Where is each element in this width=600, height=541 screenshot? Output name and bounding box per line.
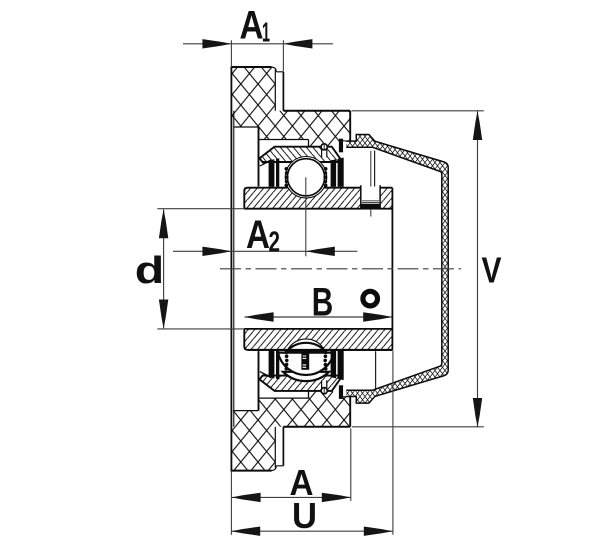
housing body right face lower — [349, 396, 351, 427]
svg-text:2: 2 — [269, 227, 281, 259]
housing flange top tab (cross-hatched section) — [231, 67, 275, 111]
dimension A2 extension (bearing centre plane) — [305, 177, 307, 256]
seal upper-right (black) — [338, 158, 344, 187]
lower ball silhouette between raceways — [278, 353, 334, 375]
dimension A arrow right — [322, 493, 351, 502]
ball upper — [287, 159, 324, 196]
inner ring sleeve upper band (hatched) — [244, 188, 392, 209]
dimension A1 line — [183, 43, 333, 45]
grease hole circle upper — [321, 144, 327, 150]
housing flange bottom tab (cross-hatched section) — [231, 427, 275, 471]
sleeve right end face — [391, 188, 393, 350]
housing recess bottom boundary — [234, 410, 259, 412]
dimension A extension right — [350, 428, 352, 501]
flange tab hatch boundary line — [274, 70, 276, 111]
far set screw hole edge line upper — [374, 151, 376, 204]
bearing outer ring upper (hatched section) — [260, 147, 342, 162]
set screw end upper (black) — [361, 204, 379, 210]
far set screw hole edge line lower — [375, 351, 377, 389]
shaft centerline (dash-dot) — [220, 268, 461, 270]
flange tab lower hatch boundary line — [274, 427, 276, 468]
flange tab top-right corner round — [272, 67, 284, 72]
housing recess top boundary — [234, 126, 259, 128]
housing hub front face lower — [258, 351, 260, 411]
dimension U arrow right — [364, 527, 393, 536]
housing back face — [230, 67, 232, 471]
sleeve upper band top edge and left face — [244, 188, 392, 209]
dimension A1 arrow right — [283, 39, 312, 48]
inner ring sleeve lower band (hatched) — [244, 329, 392, 350]
grease hole channel lower — [322, 380, 327, 390]
cap snap claw upper (black) — [339, 139, 343, 153]
housing hub front face upper — [258, 127, 260, 187]
housing body lower section (cross-hatched) — [231, 391, 350, 427]
dimension A arrow left — [232, 493, 261, 502]
dimension B arrow right — [363, 312, 392, 321]
seal upper-left (black) — [269, 159, 275, 187]
grease hole channel upper — [322, 148, 327, 158]
dimension U line — [231, 530, 393, 532]
flange tab bottom edge — [231, 470, 272, 472]
dimension U arrow left — [231, 527, 260, 536]
dimension A2 line — [173, 250, 357, 252]
flange tab lower right face — [282, 427, 284, 466]
cage dots lower-right — [323, 350, 327, 370]
lower raceway dome clearance arc — [287, 339, 324, 350]
housing body right face upper — [349, 111, 351, 142]
housing back face chamfer line — [233, 111, 235, 427]
dimension A line — [231, 496, 351, 498]
svg-text:B: B — [312, 281, 334, 325]
outer raceway clearance arc (upper) — [285, 157, 327, 199]
flange tab right face — [282, 72, 284, 111]
svg-text:U: U — [292, 495, 317, 536]
lower ball dome (visible through inner ring) — [288, 343, 325, 351]
cage dots upper-right — [323, 167, 327, 187]
dimension U extension right — [392, 351, 394, 535]
dimension A1 arrow left — [202, 39, 231, 48]
flange tab top edge — [231, 66, 272, 68]
housing body bottom edge — [283, 426, 350, 428]
housing body top edge — [283, 110, 350, 112]
lower band bottom edge across dome — [248, 349, 393, 351]
dimension d line — [163, 210, 165, 329]
cage dots upper-left — [285, 167, 289, 187]
dimension V extension bottom — [352, 426, 484, 428]
sleeve lower band bottom edge and left face — [244, 329, 392, 350]
dimension d arrow down — [159, 300, 168, 329]
svg-text:d: d — [135, 250, 165, 292]
dimension V line — [477, 111, 479, 427]
dimension U extension left — [230, 471, 232, 535]
dimension B arrow left — [245, 312, 274, 321]
dimension A2 arrow right — [306, 247, 335, 256]
dimension A2 arrow left — [202, 247, 231, 256]
dimension B line — [245, 316, 393, 318]
dimension V arrow up — [473, 111, 482, 140]
end cap (pressed steel cover, cross-hatched) — [340, 135, 448, 404]
housing body upper section (cross-hatched) — [231, 111, 350, 147]
lower raceway groove edge arc — [283, 372, 329, 381]
set screw hole upper — [361, 187, 380, 210]
shaft bore lower edge — [157, 328, 244, 330]
svg-text:A: A — [246, 213, 270, 257]
shaft bore upper edge — [157, 208, 244, 210]
set screw axis upper — [370, 151, 372, 217]
housing bore grease groove upper — [259, 140, 309, 147]
seal lower-right (black) — [338, 351, 344, 380]
dimension A1 extension right — [282, 40, 284, 71]
dimension A1 extension left — [230, 40, 232, 67]
lower cage web bar — [301, 353, 309, 370]
seal lower-left (black) — [269, 351, 275, 379]
svg-text:1: 1 — [262, 17, 270, 48]
grease hole circle lower — [321, 388, 327, 394]
cap snap claw lower (black) — [339, 385, 343, 399]
dimension d arrow up — [159, 209, 168, 238]
dimension V arrow down — [473, 398, 482, 427]
slinger lines lower-left — [260, 372, 271, 378]
housing bore grease groove lower — [259, 391, 309, 398]
dimension V extension top — [352, 110, 484, 112]
cage dots lower-left — [285, 350, 289, 370]
lower cage web rivet ticks — [303, 356, 307, 367]
svg-text:V: V — [482, 250, 502, 291]
slinger lines upper-left — [260, 160, 271, 166]
far-side set screw hole seen through bore — [363, 291, 378, 306]
flange tab bottom-right corner round — [272, 466, 284, 471]
svg-text:A: A — [240, 4, 264, 48]
bearing outer ring lower (hatched section) — [260, 376, 342, 391]
